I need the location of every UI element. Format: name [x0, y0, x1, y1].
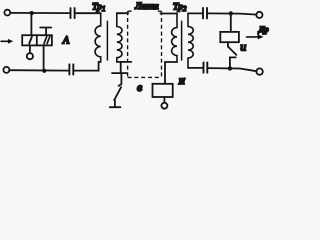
relay box i [220, 32, 239, 42]
svg-text:И: И [178, 76, 186, 86]
wire top-left rail [10, 12, 69, 14]
node junction top-left [30, 11, 34, 15]
grounding switch v: lead down [120, 62, 122, 73]
svg-text:A: A [62, 35, 70, 46]
relay open blade [228, 47, 236, 55]
grounding switch v: base bar [110, 106, 121, 108]
svg-text:и: и [240, 40, 246, 54]
wire Tp2 secondary bottom to capacitor [188, 67, 203, 69]
transformer Tp1 core [106, 21, 108, 60]
transformer Tp1 primary winding [95, 13, 101, 62]
terminal circle below instrument [161, 103, 167, 109]
relay fixed contact [230, 57, 236, 68]
wire bottom-left rail [10, 69, 69, 71]
node junction top-right [229, 11, 233, 15]
capacitor C-right-top plates [203, 8, 207, 19]
line box dashed right edge [161, 11, 163, 77]
terminal bottom-left [3, 67, 9, 73]
grounding switch v: contact bar [112, 72, 127, 74]
wire Tp1 secondary top to line [117, 12, 128, 14]
terminal top-right [256, 12, 262, 18]
line box dashed left edge [127, 11, 129, 77]
transformer Tp2 secondary winding [188, 13, 193, 68]
discharge gap electrode above cell II [40, 28, 51, 36]
transformer Tp2 core [181, 21, 183, 60]
arrow input left [1, 40, 9, 42]
node junction bottom-left [42, 69, 46, 73]
node junction bottom-right [228, 66, 232, 70]
arrester A box [22, 35, 52, 45]
wire Tp2 primary bottom to instrument [165, 62, 177, 84]
terminal bottom-right [256, 68, 262, 74]
capacitor C-right-bottom plates [204, 62, 208, 72]
lead below cell I [29, 45, 31, 53]
wire Tp1 secondary bottom to line [117, 61, 132, 63]
terminal circle below cell I [27, 53, 33, 59]
lead junction to relay box [230, 14, 232, 32]
svg-text:в: в [137, 80, 142, 94]
terminal top-left [4, 10, 10, 16]
label II [44, 37, 50, 44]
lead below cell II to bottom rail [43, 45, 45, 70]
line box dashed bottom edge [128, 76, 162, 78]
grounding switch v: pivot post [114, 100, 116, 107]
wire capacitor to Tp1 bottom with jog [74, 62, 101, 71]
instrument I box [153, 84, 173, 97]
lead below instrument box [163, 97, 165, 103]
wire capacitor to terminal top-right [208, 13, 256, 14]
capacitor C-left-top plates [71, 8, 75, 18]
transformer Tp2 primary winding [172, 14, 177, 63]
svg-text:Др: Др [258, 25, 269, 34]
wire capacitor to terminal bottom-right [208, 68, 256, 71]
grounding switch v: open blade [114, 87, 121, 100]
svg-text:Линия: Линия [134, 1, 159, 11]
relay armature lead [227, 42, 229, 46]
wire Tp2 secondary top to capacitor [188, 12, 202, 14]
wire line to Tp2 primary top [160, 13, 177, 15]
capacitor C-left-bottom plates [69, 64, 73, 74]
transformer Tp1 secondary winding [117, 13, 122, 62]
label I [29, 37, 32, 44]
grounding switch v: upper jaw with hook [119, 74, 122, 86]
arrow to Dr [247, 36, 259, 38]
wire capacitor to Tp1 [75, 12, 100, 14]
wire lead from junction down to arrester box [30, 13, 32, 35]
arrester divider [36, 35, 38, 45]
line box dashed top edge [128, 10, 162, 12]
